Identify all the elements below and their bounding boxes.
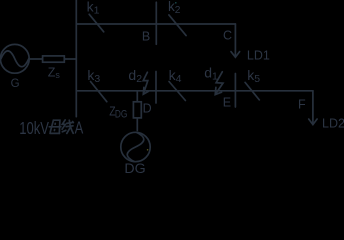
svg-text:C: C (223, 28, 232, 42)
node B (155, 2, 157, 44)
wire bus to ZDG (136, 91, 138, 101)
breaker k5 (245, 82, 259, 100)
label 10kV bus A (19, 119, 84, 139)
svg-text:DG: DG (124, 161, 145, 174)
svg-text:LD2: LD2 (322, 117, 344, 131)
stray dot near k2 (175, 2, 177, 4)
svg-text:DG: DG (115, 108, 128, 120)
svg-text:k1: k1 (87, 0, 100, 17)
wire middle feeder (76, 90, 313, 92)
wire G to Zs (29, 58, 42, 60)
svg-text:Zs: Zs (48, 66, 61, 81)
breaker k1 (89, 14, 104, 32)
resistor Zs (43, 56, 65, 62)
svg-text:d2: d2 (128, 67, 142, 85)
svg-text:10kV: 10kV (19, 119, 49, 138)
svg-text:E: E (223, 96, 231, 110)
svg-text:d1: d1 (204, 64, 218, 82)
wire top feeder (76, 23, 235, 25)
generator G (0, 44, 29, 73)
fault d1 (215, 72, 223, 95)
fault d2 (143, 72, 148, 94)
node D (155, 72, 157, 104)
svg-text:B: B (142, 30, 150, 44)
stray dot on DG circle (147, 149, 149, 151)
generator DG (121, 132, 150, 161)
load LD2 arrow (309, 91, 317, 125)
svg-text:k5: k5 (247, 67, 260, 85)
breaker k4 (169, 82, 185, 101)
bus A (75, 0, 77, 117)
svg-text:k3: k3 (87, 67, 100, 85)
breaker k3 (91, 82, 107, 102)
load LD1 arrow (231, 24, 240, 57)
svg-text:F: F (298, 97, 306, 111)
svg-text:k4: k4 (169, 67, 182, 85)
svg-text:A: A (75, 119, 84, 138)
wire ZDG to DG (136, 119, 138, 131)
node E (234, 74, 236, 108)
svg-text:k2: k2 (168, 0, 181, 16)
wire Zs to bus A (64, 58, 76, 60)
svg-text:D: D (143, 102, 152, 116)
breaker k2 (169, 15, 186, 36)
resistor ZDG (133, 102, 141, 118)
svg-text:LD1: LD1 (247, 48, 270, 62)
svg-text:G: G (11, 78, 20, 90)
